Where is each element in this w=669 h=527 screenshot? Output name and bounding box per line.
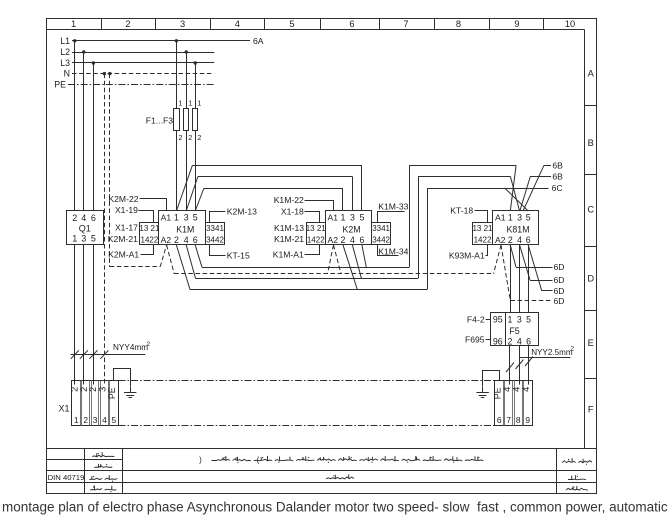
- svg-text:K2M-22: K2M-22: [108, 194, 138, 204]
- svg-text:6B: 6B: [552, 172, 563, 182]
- svg-text:6: 6: [526, 235, 531, 245]
- svg-text:6: 6: [349, 19, 354, 29]
- svg-text:3: 3: [517, 314, 522, 324]
- svg-text:4: 4: [517, 235, 522, 245]
- svg-text:4: 4: [521, 387, 531, 392]
- svg-text:(: (: [257, 456, 260, 465]
- svg-text:K1M: K1M: [176, 224, 194, 234]
- svg-text:F: F: [588, 405, 594, 415]
- svg-text:1: 1: [74, 415, 79, 425]
- svg-text:96: 96: [493, 336, 503, 346]
- svg-text:3: 3: [184, 212, 189, 222]
- svg-text:2: 2: [125, 19, 130, 29]
- svg-text:1: 1: [188, 99, 192, 108]
- svg-text:PE: PE: [107, 387, 117, 399]
- svg-text:A2: A2: [161, 235, 172, 245]
- svg-text:6D: 6D: [554, 262, 565, 272]
- svg-text:1422: 1422: [307, 236, 325, 245]
- svg-text:1: 1: [178, 99, 182, 108]
- svg-text:NYY4mm: NYY4mm: [113, 343, 148, 352]
- svg-text:1: 1: [72, 233, 77, 243]
- svg-text:N: N: [64, 69, 70, 79]
- svg-text:K1M-A1: K1M-A1: [273, 249, 304, 259]
- svg-text:montage plan of electro phase: montage plan of electro phase Asynchrono…: [2, 500, 668, 515]
- svg-text:5: 5: [359, 212, 364, 222]
- svg-text:3: 3: [81, 233, 86, 243]
- svg-text:5: 5: [289, 19, 294, 29]
- svg-text:1: 1: [71, 19, 76, 29]
- svg-text:): ): [199, 456, 202, 465]
- svg-text:6: 6: [526, 336, 531, 346]
- svg-text:NYY2.5mm: NYY2.5mm: [531, 348, 573, 357]
- svg-text:10: 10: [565, 19, 575, 29]
- svg-text:8: 8: [456, 19, 461, 29]
- svg-text:K1M-13: K1M-13: [274, 223, 304, 233]
- svg-text:X1-19: X1-19: [115, 205, 138, 215]
- svg-text:F695: F695: [465, 334, 485, 344]
- svg-text:A2: A2: [495, 235, 506, 245]
- svg-text:K1M-34: K1M-34: [378, 246, 408, 256]
- svg-text:6C: 6C: [552, 183, 563, 193]
- svg-text:K1M-33: K1M-33: [378, 201, 408, 211]
- svg-text:A1: A1: [495, 212, 506, 222]
- svg-text:X1: X1: [58, 404, 69, 414]
- svg-text:X1-17: X1-17: [115, 222, 138, 232]
- svg-text:K2M-A1: K2M-A1: [108, 249, 139, 259]
- svg-text:2: 2: [188, 133, 192, 142]
- svg-text:2: 2: [341, 235, 346, 245]
- svg-text:KT-15: KT-15: [227, 250, 250, 260]
- svg-text:4: 4: [517, 336, 522, 346]
- svg-text:Q1: Q1: [79, 223, 91, 233]
- svg-text:A: A: [588, 69, 595, 79]
- svg-text:E: E: [588, 338, 594, 348]
- svg-text:6: 6: [91, 213, 96, 223]
- svg-text:K1M-22: K1M-22: [274, 195, 304, 205]
- svg-text:L1: L1: [60, 36, 70, 46]
- svg-text:1422: 1422: [141, 236, 159, 245]
- svg-text:F1...F3: F1...F3: [146, 116, 173, 126]
- svg-text:6D: 6D: [554, 275, 565, 285]
- svg-text:9: 9: [525, 415, 530, 425]
- svg-text:13 21: 13 21: [472, 224, 493, 233]
- svg-text:1: 1: [174, 212, 179, 222]
- svg-text:X1-18: X1-18: [281, 206, 304, 216]
- svg-text:6: 6: [193, 235, 198, 245]
- svg-text:C: C: [587, 205, 594, 215]
- svg-text:6D: 6D: [554, 286, 565, 296]
- svg-text:4: 4: [350, 235, 355, 245]
- svg-text:6: 6: [359, 235, 364, 245]
- svg-text:F4-2: F4-2: [467, 314, 485, 324]
- svg-text:1: 1: [197, 99, 201, 108]
- svg-text:6: 6: [497, 415, 502, 425]
- svg-text:3442: 3442: [372, 236, 390, 245]
- svg-text:4: 4: [235, 19, 240, 29]
- svg-text:7: 7: [506, 415, 511, 425]
- svg-text:2: 2: [197, 133, 201, 142]
- svg-text:1: 1: [508, 212, 513, 222]
- svg-text:F5: F5: [509, 326, 519, 336]
- svg-text:4: 4: [511, 387, 521, 392]
- svg-text:4: 4: [502, 387, 512, 392]
- svg-text:7: 7: [403, 19, 408, 29]
- svg-text:1422: 1422: [474, 236, 492, 245]
- svg-text:K81M: K81M: [507, 224, 530, 234]
- svg-text:5: 5: [193, 212, 198, 222]
- svg-text:4: 4: [102, 415, 107, 425]
- svg-text:2: 2: [72, 213, 77, 223]
- svg-text:4: 4: [184, 235, 189, 245]
- svg-text:2: 2: [571, 346, 575, 353]
- svg-text:K2M: K2M: [343, 224, 361, 234]
- svg-text:D: D: [587, 274, 594, 284]
- svg-text:3341: 3341: [372, 224, 390, 233]
- svg-text:1: 1: [507, 314, 512, 324]
- svg-text:A1: A1: [328, 212, 339, 222]
- svg-text:2: 2: [507, 336, 512, 346]
- svg-text:L3: L3: [60, 58, 70, 68]
- svg-text:8: 8: [516, 415, 521, 425]
- svg-text:13 21: 13 21: [306, 224, 327, 233]
- svg-text:2: 2: [178, 133, 182, 142]
- svg-text:9: 9: [514, 19, 519, 29]
- svg-text:3341: 3341: [206, 224, 224, 233]
- svg-text:6B: 6B: [552, 160, 563, 170]
- svg-text:2: 2: [508, 235, 513, 245]
- svg-text:13 21: 13 21: [139, 224, 160, 233]
- svg-text:DIN 40719: DIN 40719: [48, 473, 85, 482]
- svg-text:95: 95: [493, 314, 503, 324]
- svg-text:KT-18: KT-18: [450, 205, 473, 215]
- svg-text:1: 1: [341, 212, 346, 222]
- svg-text:K93M-A1: K93M-A1: [449, 250, 485, 260]
- svg-text:K2M-13: K2M-13: [227, 206, 257, 216]
- svg-text:L2: L2: [60, 47, 70, 57]
- svg-text:3: 3: [350, 212, 355, 222]
- svg-text:PE: PE: [54, 80, 66, 90]
- svg-text:2: 2: [174, 235, 179, 245]
- svg-text:5: 5: [111, 415, 116, 425]
- svg-text:3442: 3442: [206, 236, 224, 245]
- svg-text:3: 3: [93, 415, 98, 425]
- svg-text:PE: PE: [492, 387, 502, 399]
- svg-text:3: 3: [517, 212, 522, 222]
- svg-text:A2: A2: [328, 235, 339, 245]
- svg-text:5: 5: [526, 212, 531, 222]
- svg-text:B: B: [588, 138, 594, 148]
- svg-text:5: 5: [526, 314, 531, 324]
- svg-text:2: 2: [83, 415, 88, 425]
- svg-text:6D: 6D: [554, 296, 565, 306]
- svg-text:3: 3: [180, 19, 185, 29]
- svg-text:A1: A1: [161, 212, 172, 222]
- svg-text:4: 4: [81, 213, 86, 223]
- svg-text:K2M-21: K2M-21: [108, 234, 138, 244]
- svg-text:5: 5: [91, 233, 96, 243]
- svg-text:2: 2: [147, 341, 151, 348]
- svg-text:K1M-21: K1M-21: [274, 234, 304, 244]
- svg-text:6A: 6A: [253, 36, 264, 46]
